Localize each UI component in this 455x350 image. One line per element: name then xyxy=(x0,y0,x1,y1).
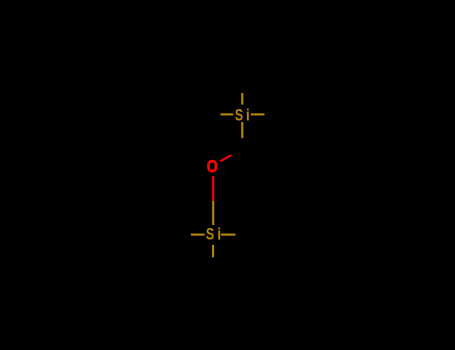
svg-text:i: i xyxy=(217,225,221,243)
svg-text:S: S xyxy=(206,226,214,244)
svg-text:S: S xyxy=(235,107,243,125)
svg-text:i: i xyxy=(246,106,250,124)
